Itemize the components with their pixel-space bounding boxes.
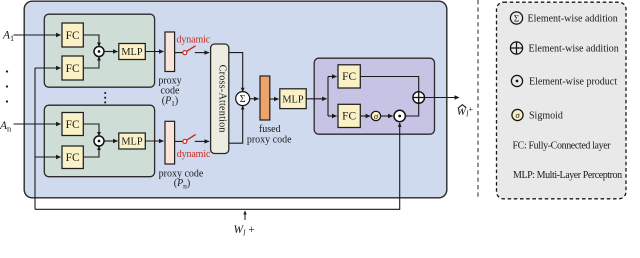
svg-text:MLP: MLP <box>282 94 303 105</box>
svg-text:(Pn): (Pn) <box>174 178 191 190</box>
svg-text:MLP: Multi-Layer Perceptron: MLP: Multi-Layer Perceptron <box>513 170 622 181</box>
svg-text:MLP: MLP <box>121 47 142 58</box>
svg-text:An: An <box>0 120 12 134</box>
svg-text:FC: FC <box>66 63 80 75</box>
svg-text:fused: fused <box>259 124 281 135</box>
svg-text:A1: A1 <box>2 30 14 44</box>
svg-text:dynamic: dynamic <box>177 34 211 45</box>
svg-text:Σ: Σ <box>240 94 246 105</box>
svg-text:Element-wise addition: Element-wise addition <box>529 43 619 54</box>
svg-text:FC: FC <box>342 71 356 83</box>
svg-text:FC: FC <box>66 119 80 131</box>
svg-text:dynamic: dynamic <box>177 149 211 160</box>
svg-text:Wl +: Wl + <box>234 224 255 238</box>
svg-text:Cross-Attention: Cross-Attention <box>217 65 228 133</box>
svg-text:FC: FC <box>66 30 80 42</box>
svg-text:Σ: Σ <box>514 13 519 23</box>
svg-text:FC: FC <box>342 111 356 123</box>
svg-text:FC: Fully-Connected layer: FC: Fully-Connected layer <box>513 141 612 152</box>
svg-text:Element-wise addition: Element-wise addition <box>528 13 618 24</box>
svg-text:MLP: MLP <box>121 137 142 148</box>
svg-text:FC: FC <box>66 152 80 164</box>
svg-text:Element-wise product: Element-wise product <box>529 76 617 87</box>
svg-text:(P1): (P1) <box>162 96 179 108</box>
svg-text:Sigmoid: Sigmoid <box>529 110 563 121</box>
svg-text:proxy code: proxy code <box>247 135 292 146</box>
